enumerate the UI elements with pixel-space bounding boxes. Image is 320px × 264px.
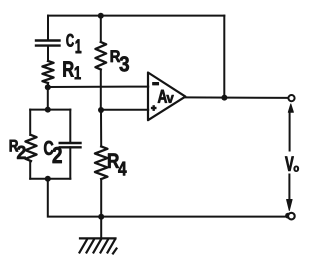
wire C1 to R1 — [47, 46, 49, 61]
wire feedback vertical — [223, 16, 225, 98]
resistor R1 — [42, 61, 53, 83]
wire op-amp output — [185, 96, 288, 99]
arrowhead down above bottom terminal — [287, 200, 293, 211]
wire R2C2 top bar — [30, 109, 70, 111]
wire node A down to R2C2 network — [47, 87, 49, 109]
wire node A to op-amp inverting input — [48, 86, 148, 88]
resistor R3 — [95, 42, 106, 70]
label R3 letter R — [111, 50, 120, 62]
node A junction dot — [45, 84, 51, 90]
label R3 subscript 3 — [120, 56, 129, 71]
resistor R2 — [25, 135, 36, 161]
label R1 subscript 1 — [75, 66, 81, 79]
wire top rail — [48, 15, 224, 17]
node top of R2C2 junction dot — [45, 107, 51, 113]
node ground junction dot — [98, 214, 104, 220]
node output junction dot — [221, 95, 227, 101]
wire R1 to node A — [47, 83, 49, 87]
capacitor C1 — [36, 41, 60, 46]
wire R2C2 bottom bar — [30, 178, 70, 180]
node bottom of R2C2 junction dot — [45, 176, 51, 182]
wire Vo lower segment — [288, 175, 290, 202]
wire R4 lower lead — [100, 179, 102, 217]
node R3 top junction dot — [98, 13, 104, 19]
output terminal bottom circle — [288, 213, 295, 220]
wire node B to op-amp non-inverting input — [101, 109, 148, 111]
wire Vo upper segment — [289, 111, 291, 151]
output terminal top circle — [288, 95, 294, 101]
wire C2 branch upper lead — [69, 110, 71, 142]
wire R2 branch upper lead — [29, 110, 31, 135]
op-amp plus sign — [151, 105, 157, 111]
label R2 subscript 2 — [17, 146, 26, 159]
wire R4 upper lead — [100, 110, 102, 147]
label R4 subscript 4 — [118, 162, 126, 176]
ground — [80, 238, 117, 253]
op-amp U1 triangle — [148, 73, 185, 121]
op-amp minus sign — [153, 82, 159, 85]
wire ground stub — [100, 217, 102, 238]
capacitor C2 — [60, 143, 81, 147]
label C1 letter C — [66, 34, 73, 47]
wire C2 branch lower lead — [69, 147, 71, 178]
wire R2 branch lower lead — [29, 161, 31, 179]
op-amp gain label v — [167, 95, 174, 103]
wire R3 upper lead — [100, 16, 102, 42]
node bottom terminal dot — [285, 213, 291, 219]
label R4 letter R — [108, 154, 119, 168]
resistor R4 — [95, 147, 108, 180]
label Vo letter V — [285, 157, 294, 171]
wire C1 branch top lead — [47, 16, 49, 40]
label C2 subscript 2 — [53, 147, 62, 163]
label C2 letter C — [44, 141, 53, 155]
node B junction dot — [98, 107, 104, 113]
wire R3 lower lead to node B — [100, 70, 102, 111]
label Vo subscript o — [294, 166, 299, 172]
wire R2C2 bottom down to ground rail — [48, 179, 288, 217]
label R2 letter R — [10, 140, 19, 152]
arrowhead up below top terminal — [288, 104, 293, 112]
op-amp gain label A — [158, 90, 167, 103]
label C1 subscript 1 — [76, 39, 82, 53]
label R1 letter R — [63, 61, 73, 76]
